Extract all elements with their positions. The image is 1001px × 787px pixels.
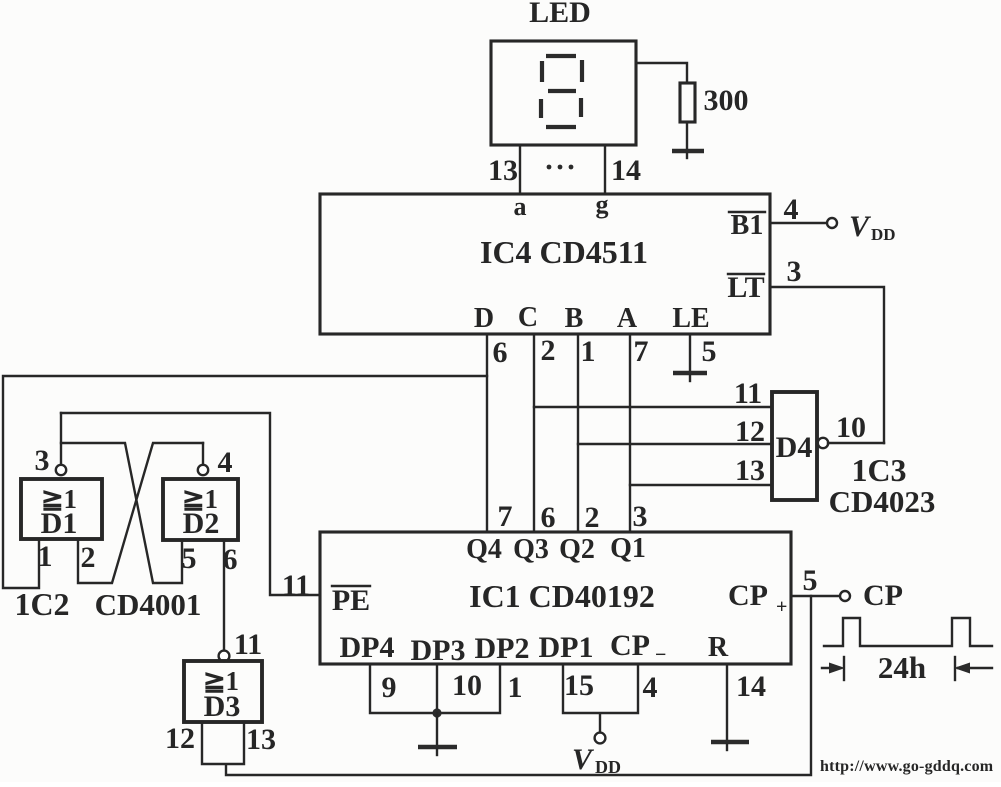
input label DP1 xyxy=(539,631,594,664)
svg-text:5: 5 xyxy=(182,542,197,575)
7-segment digit segment f xyxy=(540,61,544,82)
pin label 15 xyxy=(564,669,594,702)
D4 output bubble xyxy=(818,438,828,448)
input label CP- xyxy=(610,629,666,666)
wire Q3 branch to D4 pin 11 xyxy=(534,406,772,408)
wire BI to VDD terminal xyxy=(770,222,827,224)
wire DP4 DP3 DP2 tied low xyxy=(370,664,500,713)
svg-text:1: 1 xyxy=(38,540,53,573)
svg-text:2: 2 xyxy=(541,334,556,367)
pin label 5 (D2) xyxy=(182,542,197,575)
svg-text:CD4023: CD4023 xyxy=(829,484,936,519)
pin label 3 (D1 output) xyxy=(35,444,50,477)
NOR gate D2 (1/4 CD4001) box xyxy=(163,479,238,540)
D1 gate function symbol xyxy=(41,484,77,514)
NOR gate D3 (1/4 CD4001) box xyxy=(184,661,262,722)
output label Q3 xyxy=(513,534,549,565)
svg-text:4: 4 xyxy=(643,671,658,704)
gate designator D4 xyxy=(776,431,813,464)
IC2 designator label xyxy=(14,586,69,622)
svg-text:9: 9 xyxy=(382,671,397,704)
ground (resistor) xyxy=(672,151,704,158)
CP terminal circle xyxy=(840,591,850,601)
pin label 5 xyxy=(702,335,717,368)
wire LE to ground xyxy=(689,334,691,371)
pin label 1 xyxy=(508,671,523,704)
svg-text:R: R xyxy=(708,632,729,663)
svg-text:24h: 24h xyxy=(878,650,926,685)
wire net D / Q4 (IC4 pin6 to IC1 pin7) xyxy=(486,334,488,532)
wire R pin14 to ground xyxy=(726,664,728,740)
input label D xyxy=(474,303,494,334)
svg-text:1: 1 xyxy=(508,671,523,704)
VDD terminal circle xyxy=(827,218,837,228)
svg-text:13: 13 xyxy=(488,154,518,187)
LED 7-segment display box xyxy=(491,41,636,145)
svg-text:IC4 CD4511: IC4 CD4511 xyxy=(480,234,648,270)
7-segment digit segment c xyxy=(579,98,583,117)
gate designator D2 xyxy=(183,507,220,540)
svg-text:11: 11 xyxy=(734,377,762,410)
svg-text:14: 14 xyxy=(736,670,766,703)
pin label 11 (D3 output) xyxy=(234,628,262,661)
svg-text:Q1: Q1 xyxy=(610,533,646,564)
svg-text:DP4: DP4 xyxy=(340,631,395,664)
dimension tick right xyxy=(954,657,956,680)
input label LE xyxy=(672,303,709,334)
svg-text:a: a xyxy=(514,192,527,221)
pin label 3 (Q1) xyxy=(633,500,648,533)
pin label 5 (CP+) xyxy=(803,564,818,597)
pin label 6 xyxy=(493,336,508,369)
7-segment digit segment d xyxy=(546,125,576,129)
svg-text:+: + xyxy=(776,596,787,618)
CP clock waveform xyxy=(824,618,992,646)
segment input label g xyxy=(596,190,609,219)
svg-text:14: 14 xyxy=(611,154,641,187)
IC4 CD4511 box xyxy=(320,194,770,334)
svg-text:DD: DD xyxy=(595,757,621,777)
svg-text:7: 7 xyxy=(634,335,649,368)
wire pin 13 (LED) xyxy=(519,145,521,193)
svg-text:2: 2 xyxy=(81,541,96,574)
pin label 7 (Q4) xyxy=(498,500,513,533)
NOR gate D1 (1/4 CD4001) box xyxy=(21,479,102,539)
svg-text:PE: PE xyxy=(332,584,370,617)
pin label 12 (D3) xyxy=(165,722,195,755)
output label Q2 xyxy=(559,534,595,565)
svg-text:C: C xyxy=(518,302,538,333)
input label R xyxy=(708,632,729,663)
svg-text:CD4001: CD4001 xyxy=(95,587,202,622)
pin label 1 (D1) xyxy=(38,540,53,573)
svg-text:V: V xyxy=(849,210,872,243)
svg-text:IC1 CD40192: IC1 CD40192 xyxy=(469,578,655,614)
gate designator D1 xyxy=(41,507,78,540)
svg-text:DP1: DP1 xyxy=(539,631,594,664)
wire D2 output stub xyxy=(202,443,204,465)
7-segment digit segment b xyxy=(580,60,584,82)
pin label 10 xyxy=(836,411,866,444)
watermark url xyxy=(820,758,994,775)
svg-text:DP2: DP2 xyxy=(475,632,530,665)
pin label 7 xyxy=(634,335,649,368)
input label A xyxy=(617,303,638,334)
wire DP1 and CP- pins tied xyxy=(563,664,638,732)
svg-text:3: 3 xyxy=(633,500,648,533)
svg-text:A: A xyxy=(617,303,638,334)
svg-text:D3: D3 xyxy=(204,690,241,723)
svg-text:4: 4 xyxy=(784,193,799,226)
svg-text:1C2: 1C2 xyxy=(14,586,69,622)
svg-text:LT: LT xyxy=(727,271,764,304)
pin label 6 (D2) xyxy=(223,543,238,576)
wire Q2 branch to D4 pin 12 xyxy=(578,443,772,445)
D2 output bubble xyxy=(198,465,208,475)
VDD label (bottom) xyxy=(572,743,621,777)
input label C xyxy=(518,302,538,333)
pin label 3 xyxy=(787,255,802,288)
NAND gate D4 (1/3 CD4023) box xyxy=(772,392,817,500)
wire LED to resistor xyxy=(636,63,687,83)
wire net A / Q1 (IC4 pin7 to IC1 pin3) xyxy=(629,334,631,532)
svg-text:−: − xyxy=(655,644,666,666)
junction dot (DP3 node) xyxy=(432,708,441,717)
pin label 6 (Q3) xyxy=(541,501,556,534)
svg-text:Q3: Q3 xyxy=(513,534,549,565)
output label Q4 xyxy=(466,534,502,565)
dimension arrow right xyxy=(954,663,992,674)
svg-text:g: g xyxy=(596,190,609,219)
svg-text:D: D xyxy=(474,303,494,334)
pin label 2 (Q2) xyxy=(585,501,600,534)
IC2 part number CD4001 xyxy=(95,587,202,622)
pin label 1 xyxy=(581,335,596,368)
ground (DP inputs) xyxy=(418,747,457,755)
IC1 CD40192 box xyxy=(320,532,791,664)
pin CP+ label xyxy=(728,579,787,618)
pin label 4 (D2 output) xyxy=(218,446,233,479)
wire Q1 branch to D4 pin 13 xyxy=(630,484,772,486)
7-segment digit segment g xyxy=(548,89,576,93)
svg-text:10: 10 xyxy=(836,411,866,444)
ground (R pin) xyxy=(711,742,749,750)
svg-text:Q4: Q4 xyxy=(466,534,502,565)
svg-text:B1: B1 xyxy=(731,210,764,241)
svg-text:LE: LE xyxy=(672,303,709,334)
svg-text:10: 10 xyxy=(452,669,482,702)
pin LT (overlined) xyxy=(727,271,764,304)
svg-text:1C3: 1C3 xyxy=(851,452,906,488)
svg-text:12: 12 xyxy=(735,415,765,448)
gate designator D3 xyxy=(204,690,241,723)
input label DP3 xyxy=(411,634,466,667)
svg-text:V: V xyxy=(572,743,595,776)
svg-text:D1: D1 xyxy=(41,507,78,540)
VDD label (top) xyxy=(849,210,896,244)
wire D4 output pin 10 xyxy=(828,442,884,444)
wire LT to D4 output node xyxy=(770,287,884,443)
VDD terminal circle (bottom) xyxy=(595,733,606,744)
svg-text:11: 11 xyxy=(234,628,262,661)
svg-text:5: 5 xyxy=(803,564,818,597)
ground (LE pin 5) xyxy=(673,373,707,381)
svg-text:7: 7 xyxy=(498,500,513,533)
wire CP+ pin5 to CP terminal xyxy=(791,595,840,597)
pin label 2 xyxy=(541,334,556,367)
D1 output bubble xyxy=(56,465,66,475)
svg-text:11: 11 xyxy=(282,569,310,602)
pin label 13 (D4) xyxy=(735,454,765,487)
input label DP2 xyxy=(475,632,530,665)
input label DP4 xyxy=(340,631,395,664)
pin label 11 (D4) xyxy=(734,377,762,410)
IC3 part number CD4023 xyxy=(829,484,936,519)
wire D1 output stub xyxy=(60,413,62,465)
wire D2 pin6 to D3 output xyxy=(223,540,225,650)
LED label xyxy=(529,0,591,29)
pin label 14 xyxy=(736,670,766,703)
svg-text:http://www.go-gddq.com: http://www.go-gddq.com xyxy=(820,758,994,775)
svg-text:3: 3 xyxy=(787,255,802,288)
pin label 10 xyxy=(452,669,482,702)
pin label 4 xyxy=(784,193,799,226)
svg-text:D2: D2 xyxy=(183,507,220,540)
pin label 13 xyxy=(488,154,518,187)
output label Q1 xyxy=(610,533,646,564)
svg-text:1: 1 xyxy=(581,335,596,368)
svg-text:12: 12 xyxy=(165,722,195,755)
segment input label a xyxy=(514,192,527,221)
svg-text:6: 6 xyxy=(541,501,556,534)
D3 gate function symbol xyxy=(203,666,239,696)
wire cross-couple D1 pin3 to D2 pin5 xyxy=(61,443,182,583)
7-segment digit segment e xyxy=(539,99,543,118)
wire Q4 net to D1 input pin1 (long left feedback) xyxy=(3,376,487,588)
resistor 300 xyxy=(680,83,695,122)
pin label 14 xyxy=(611,154,641,187)
IC3 designator label xyxy=(851,452,906,488)
7-segment digit segment a xyxy=(546,54,576,58)
input label B xyxy=(565,303,584,334)
wire net B / Q2 (IC4 pin1 to IC1 pin2) xyxy=(577,334,579,532)
svg-text:15: 15 xyxy=(564,669,594,702)
svg-text:300: 300 xyxy=(704,84,749,117)
wire resistor to ground xyxy=(686,122,688,149)
svg-text:Q2: Q2 xyxy=(559,534,595,565)
svg-text:2: 2 xyxy=(585,501,600,534)
svg-text:6: 6 xyxy=(493,336,508,369)
pin BI (overlined B1) xyxy=(729,210,765,241)
resistor value 300 xyxy=(704,84,749,117)
svg-text:5: 5 xyxy=(702,335,717,368)
pin label 4 xyxy=(643,671,658,704)
svg-text:D4: D4 xyxy=(776,431,813,464)
svg-text:CP: CP xyxy=(610,629,650,662)
dimension tick left xyxy=(843,657,845,680)
svg-text:4: 4 xyxy=(218,446,233,479)
pin label 13 (D3) xyxy=(246,723,276,756)
ellipsis dots between LED pins xyxy=(547,165,574,170)
wire junction to ground xyxy=(436,713,438,745)
pin label 9 xyxy=(382,671,397,704)
IC4 title text xyxy=(480,234,648,270)
IC1 title text xyxy=(469,578,655,614)
svg-text:CP: CP xyxy=(863,579,903,612)
pin label 12 (D4) xyxy=(735,415,765,448)
pin PE (overlined) xyxy=(332,584,370,617)
CP terminal label xyxy=(863,579,903,612)
wire net C / Q3 (IC4 pin2 to IC1 pin6) xyxy=(533,334,535,532)
D3 output bubble xyxy=(219,651,230,662)
svg-text:CP: CP xyxy=(728,579,768,612)
wire pin 14 (LED) xyxy=(604,145,606,193)
wire cross-couple D2 pin4 to D1 pin2 xyxy=(78,443,203,583)
svg-text:B: B xyxy=(565,303,584,334)
D2 gate function symbol xyxy=(182,484,218,514)
svg-text:LED: LED xyxy=(529,0,591,29)
svg-text:DD: DD xyxy=(871,225,896,244)
dimension arrow left xyxy=(822,663,845,674)
period label 24h xyxy=(878,650,926,685)
svg-text:DP3: DP3 xyxy=(411,634,466,667)
pin label 2 (D1) xyxy=(81,541,96,574)
wire D3 inputs 12,13 tied to CP line xyxy=(202,596,811,775)
wire D1 output pin3 to IC1 PE pin11 xyxy=(61,413,320,595)
svg-text:13: 13 xyxy=(735,454,765,487)
pin label 11 (PE) xyxy=(282,569,310,602)
svg-text:3: 3 xyxy=(35,444,50,477)
svg-text:13: 13 xyxy=(246,723,276,756)
